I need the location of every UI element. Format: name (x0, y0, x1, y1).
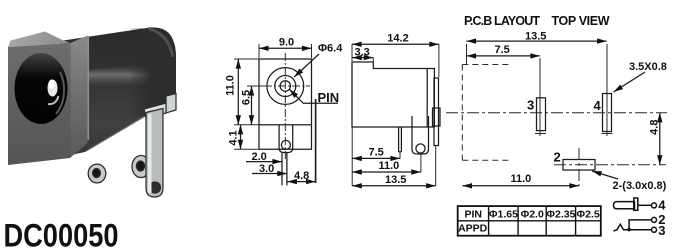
svg-text:4: 4 (594, 98, 602, 113)
svg-text:9.0: 9.0 (279, 37, 294, 49)
svg-text:11.0: 11.0 (379, 160, 400, 172)
svg-text:6.5: 6.5 (241, 90, 253, 105)
svg-text:11.0: 11.0 (225, 75, 237, 96)
svg-text:3.0: 3.0 (259, 163, 274, 175)
svg-text:4.8: 4.8 (648, 120, 660, 135)
svg-text:4: 4 (658, 198, 666, 213)
svg-text:2: 2 (554, 150, 561, 165)
svg-text:Φ2.5: Φ2.5 (576, 209, 599, 221)
svg-text:Φ2.0: Φ2.0 (521, 209, 544, 221)
svg-text:13.5: 13.5 (525, 31, 546, 43)
svg-text:TOP VIEW: TOP VIEW (552, 14, 610, 28)
svg-text:3.5X0.8: 3.5X0.8 (629, 61, 667, 73)
svg-text:Φ1.65: Φ1.65 (489, 209, 518, 221)
svg-text:7.5: 7.5 (495, 44, 510, 56)
svg-text:Φ2.35: Φ2.35 (546, 209, 575, 221)
svg-text:PIN: PIN (464, 209, 482, 221)
svg-text:14.2: 14.2 (387, 33, 408, 45)
svg-text:13.5: 13.5 (385, 174, 406, 186)
svg-text:11.0: 11.0 (511, 173, 532, 185)
svg-text:APPD: APPD (458, 223, 488, 235)
svg-text:DC00050: DC00050 (4, 218, 119, 249)
svg-text:7.5: 7.5 (369, 146, 384, 158)
svg-text:4.8: 4.8 (294, 170, 309, 182)
svg-text:Φ6.4: Φ6.4 (318, 43, 343, 55)
svg-text:2-(3.0x0.8): 2-(3.0x0.8) (613, 180, 667, 192)
svg-text:P.C.B LAYOUT: P.C.B LAYOUT (464, 14, 540, 28)
svg-text:3: 3 (527, 98, 534, 113)
svg-text:3.3: 3.3 (355, 47, 370, 59)
svg-text:3: 3 (658, 223, 665, 238)
svg-text:4.1: 4.1 (228, 130, 240, 145)
svg-text:2.0: 2.0 (252, 151, 267, 163)
